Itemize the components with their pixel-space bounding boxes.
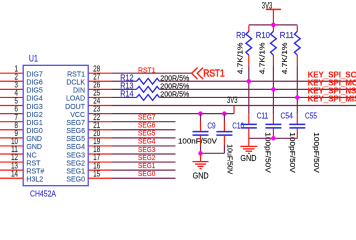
- net label SEG6: [138, 123, 155, 130]
- svg-text:GND: GND: [193, 171, 209, 181]
- capacitor C9 100nF/50V: [178, 114, 218, 146]
- svg-text:4.7K/1%: 4.7K/1%: [280, 42, 289, 75]
- pin 17 (SEG2): [66, 153, 111, 167]
- svg-text:SEG2: SEG2: [138, 155, 155, 162]
- svg-text:DIG2: DIG2: [26, 112, 42, 119]
- svg-text:DIG1: DIG1: [26, 120, 42, 127]
- svg-text:RST1: RST1: [138, 65, 156, 74]
- wire cap ground rail: [249, 137, 297, 139]
- capacitor C11 100pF/50V: [241, 112, 273, 173]
- resistor R14 200R/5%: [120, 90, 189, 101]
- svg-text:GND: GND: [240, 153, 256, 163]
- pin 27 (DCLK): [66, 72, 111, 86]
- resistor R13 200R/5%: [120, 82, 189, 93]
- svg-text:100pF/50V: 100pF/50V: [312, 132, 321, 173]
- power symbol 3V3: [262, 0, 281, 25]
- svg-text:VCC: VCC: [70, 112, 85, 119]
- svg-text:SEG7: SEG7: [138, 114, 155, 121]
- wire 3V3 top bar: [249, 24, 297, 26]
- wire R10 to bus and cap: [272, 66, 274, 115]
- ground GND under C11: [240, 146, 257, 153]
- svg-text:C55: C55: [305, 112, 318, 121]
- wire R12 to KEY bus: [159, 80, 356, 82]
- pin 11 (NC): [0, 145, 37, 159]
- svg-text:DOUT: DOUT: [65, 104, 86, 111]
- resistor R12 200R/5%: [120, 73, 189, 84]
- net label SEG7: [138, 114, 155, 121]
- svg-text:SEG1: SEG1: [138, 163, 155, 170]
- net label 3V3 (mid): [227, 95, 238, 105]
- pin 7 (DIG1): [0, 113, 43, 127]
- svg-text:SEG3: SEG3: [66, 152, 85, 159]
- svg-text:CH452A: CH452A: [30, 188, 56, 198]
- svg-text:NC: NC: [26, 152, 36, 159]
- pin 10 (GND): [0, 137, 42, 151]
- svg-text:C10: C10: [232, 122, 244, 131]
- wire SEG6: [112, 129, 176, 131]
- wire jog VCC up to row 24: [233, 106, 235, 114]
- net label SEG1: [138, 163, 155, 170]
- svg-text:4.7K/1%: 4.7K/1%: [258, 42, 267, 75]
- pin 6 (DIG2): [0, 105, 43, 119]
- junction 3V3 / top bar: [271, 23, 276, 28]
- wire DOUT / KEY_SPI_MISO / 3V3 feed (row 24): [112, 105, 356, 107]
- svg-text:DIG0: DIG0: [26, 128, 42, 135]
- wire R9 to bus and cap: [248, 66, 250, 115]
- pin 22 (SEG7): [66, 113, 111, 127]
- capacitor C10 10uF/50V: [216, 114, 244, 175]
- junction R11 to SPI row: [295, 95, 300, 100]
- svg-text:100nF/50V: 100nF/50V: [178, 136, 218, 145]
- svg-text:DIG7: DIG7: [26, 72, 42, 79]
- wire R14 to KEY bus: [159, 96, 356, 98]
- pin 15 (SEG0): [66, 169, 111, 183]
- off-page connector RST1: [192, 68, 203, 79]
- pin 28 (RST1): [67, 64, 111, 78]
- pin 26 (DIN): [73, 80, 112, 94]
- wire R13 to KEY bus: [159, 88, 356, 90]
- pin 25 (LOAD): [66, 89, 112, 103]
- wire pin 25 to R14: [112, 96, 137, 98]
- svg-text:SEG6: SEG6: [138, 123, 155, 130]
- wire SEG3: [112, 153, 176, 155]
- svg-text:C9: C9: [207, 122, 215, 131]
- wire pin 27 to R12: [112, 80, 137, 82]
- wire SEG1: [112, 169, 176, 171]
- junction C9/C10 ground node: [198, 151, 203, 156]
- wire SEG4: [112, 145, 176, 147]
- pin 4 (DIG4): [0, 89, 43, 103]
- svg-text:GND: GND: [26, 144, 42, 151]
- svg-text:DIG5: DIG5: [26, 88, 42, 95]
- wire RST1 (pin 28 to connector): [112, 72, 192, 74]
- pin 19 (SEG4): [66, 137, 111, 151]
- wire SEG5: [112, 137, 176, 139]
- svg-text:R11: R11: [280, 31, 294, 40]
- svg-text:SEG4: SEG4: [66, 144, 85, 151]
- pin 16 (SEG1): [66, 161, 111, 175]
- junction C10 top: [222, 111, 227, 116]
- svg-text:3V3: 3V3: [227, 95, 238, 105]
- pin 5 (DIG3): [0, 97, 43, 111]
- resistor R9 4.7K/1%: [235, 26, 251, 75]
- net label KEY_SPI_NSS: [308, 86, 356, 95]
- pin 24 (DOUT): [65, 97, 111, 111]
- svg-text:SEG4: SEG4: [138, 139, 155, 146]
- junction R9 to SPI row: [247, 79, 252, 84]
- svg-text:10uF/50V: 10uF/50V: [226, 144, 235, 174]
- wire pin 26 to R13: [112, 88, 137, 90]
- svg-text:LOAD: LOAD: [66, 96, 85, 103]
- svg-text:SEG5: SEG5: [138, 131, 155, 138]
- op-amp U1 CH452A chip body: [23, 53, 88, 198]
- pin 21 (SEG6): [66, 121, 111, 135]
- svg-text:15: 15: [93, 169, 100, 178]
- svg-text:SEG0: SEG0: [138, 171, 155, 178]
- svg-text:DIG6: DIG6: [26, 80, 42, 87]
- wire VCC (pin 23) to 3V3 jog: [112, 113, 235, 115]
- net label SEG5: [138, 131, 155, 138]
- svg-text:R14: R14: [120, 90, 134, 99]
- wire C10 bottom to C9 bottom: [200, 146, 225, 154]
- net label SEG2: [138, 155, 155, 162]
- svg-text:KEY_SPI_MISO: KEY_SPI_MISO: [308, 95, 356, 104]
- pin 12 (RST): [0, 153, 41, 167]
- resistor R11 4.7K/1%: [280, 26, 301, 75]
- svg-text:R10: R10: [256, 31, 271, 40]
- pin 23 (VCC): [70, 105, 111, 119]
- svg-text:SEG6: SEG6: [66, 128, 85, 135]
- junction R10 to SPI row: [271, 87, 276, 92]
- net label KEY_SPI_MISO: [308, 95, 356, 104]
- net label KEY_SPI_MOSI: [308, 78, 356, 87]
- wire SEG2: [112, 161, 176, 163]
- ground GND under C9: [193, 153, 209, 168]
- net label SEG4: [138, 139, 155, 146]
- svg-text:SEG2: SEG2: [66, 160, 85, 167]
- svg-text:RST#: RST#: [26, 168, 44, 175]
- svg-text:SEG7: SEG7: [66, 120, 85, 127]
- svg-text:DIN: DIN: [73, 88, 85, 95]
- svg-text:SEG0: SEG0: [66, 177, 85, 184]
- svg-text:R9: R9: [236, 31, 245, 40]
- svg-text:DCLK: DCLK: [66, 80, 85, 87]
- svg-text:GND: GND: [26, 136, 42, 143]
- svg-text:14: 14: [11, 169, 18, 178]
- svg-text:U1: U1: [29, 53, 38, 63]
- svg-text:RST1: RST1: [67, 72, 85, 79]
- pin 9 (GND): [0, 129, 42, 143]
- wire C9 bottom: [200, 146, 202, 154]
- svg-text:SEG1: SEG1: [66, 168, 85, 175]
- svg-text:H3L2: H3L2: [26, 177, 43, 184]
- svg-text:DIG4: DIG4: [26, 96, 42, 103]
- capacitor C55 100pF/50V: [289, 112, 321, 173]
- pin 3 (DIG5): [0, 80, 43, 94]
- resistor R10 4.7K/1%: [256, 26, 277, 75]
- svg-text:RST: RST: [26, 160, 41, 167]
- svg-text:C54: C54: [281, 112, 294, 121]
- capacitor C54 100pF/50V: [265, 112, 297, 173]
- junction C9 top: [198, 111, 203, 116]
- wire R11 to bus and cap: [296, 66, 298, 115]
- net label KEY_SPI_SCLK: [308, 70, 356, 79]
- pin 20 (SEG5): [66, 129, 111, 143]
- net label SEG0: [138, 171, 155, 178]
- junction C54 ground rail: [271, 136, 276, 141]
- pin 14 (H3L2): [0, 169, 43, 183]
- svg-text:DIG3: DIG3: [26, 104, 42, 111]
- net label SEG3: [138, 147, 155, 154]
- pin 2 (DIG6): [0, 72, 43, 86]
- wire SEG7: [112, 121, 176, 123]
- wire SEG0: [112, 177, 176, 179]
- svg-text:SEG3: SEG3: [138, 147, 155, 154]
- pin 1 (DIG7): [0, 64, 43, 78]
- svg-text:RST1: RST1: [203, 68, 225, 79]
- net label RST1: [138, 65, 156, 74]
- svg-text:4.7K/1%: 4.7K/1%: [235, 42, 244, 75]
- svg-text:C11: C11: [257, 112, 269, 121]
- pin 13 (RST#): [0, 161, 44, 175]
- svg-text:SEG5: SEG5: [66, 136, 85, 143]
- pin 8 (DIG0): [0, 121, 43, 135]
- pin 18 (SEG3): [66, 145, 111, 159]
